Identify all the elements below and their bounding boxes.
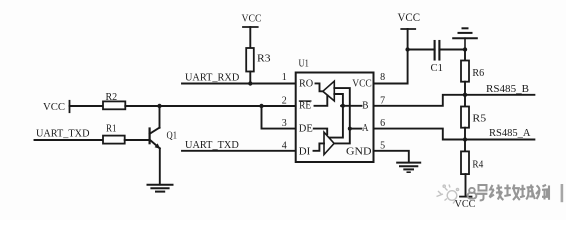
wire B to R5 (464, 95, 466, 107)
hanzi 城 (520, 185, 535, 200)
watermark right bar (561, 184, 564, 202)
svg-text:5: 5 (380, 140, 385, 151)
svg-text:4: 4 (282, 140, 287, 151)
wire R2 to pin2 of U1 (125, 105, 295, 107)
wire A to R4 (464, 140, 466, 152)
power flag VCC top (R3) (243, 26, 258, 28)
op-amp U1 box (296, 73, 374, 163)
node C1-gnd junction (463, 47, 467, 51)
resistor R4 (461, 151, 469, 174)
wire VCC flag to R3 (249, 27, 251, 48)
node VCC-C1 junction (405, 47, 409, 51)
receiver triangle (323, 81, 335, 101)
power flag VCC (pin8) (401, 28, 415, 30)
wire A internal (350, 128, 362, 130)
wire R1 to Q1 base (125, 139, 149, 141)
transistor Q1 (150, 128, 161, 149)
wire UART_TXD to R1 (35, 139, 104, 141)
node RE-DE junction (259, 104, 263, 108)
hanzi 线 (490, 185, 504, 201)
wire receiver lower input (329, 94, 343, 138)
resistor R2 (103, 101, 125, 109)
wire VCC to R2 (70, 105, 104, 107)
svg-text:RO: RO (299, 78, 313, 89)
driver triangle (324, 132, 334, 154)
svg-text:VCC: VCC (455, 199, 476, 210)
svg-text:C1: C1 (431, 63, 443, 74)
svg-text:VCC: VCC (398, 10, 421, 24)
wire R6 to B line (464, 82, 466, 95)
ground (inverted, top right) (453, 28, 477, 49)
svg-text:RS485_B: RS485_B (486, 83, 529, 95)
svg-text:RE: RE (299, 101, 311, 112)
svg-text:R6: R6 (472, 68, 484, 79)
wire RE enable (315, 96, 328, 106)
wire pin5 to ground (374, 151, 409, 163)
wire junction down to DE pin3 (262, 106, 296, 129)
node R5-A junction (463, 137, 467, 141)
svg-text:2: 2 (282, 95, 287, 106)
wire R3 to pin1 wire (249, 72, 251, 84)
node collector junction (157, 104, 161, 108)
svg-text:GND: GND (346, 146, 372, 157)
wire UART_RXD to pin1 (182, 83, 296, 85)
svg-text:UART_RXD: UART_RXD (185, 72, 239, 84)
resistor R1 (103, 136, 125, 144)
wire DE enable (314, 129, 327, 134)
hanzi 号 (477, 185, 488, 200)
node R6-B junction (463, 93, 467, 97)
wire R5 to A line (464, 128, 466, 140)
svg-text:DE: DE (299, 123, 313, 134)
svg-text:DI: DI (299, 146, 311, 157)
wire R4 to VCC bottom (465, 174, 467, 197)
wire pin8 to VCC (374, 29, 408, 84)
svg-text:U1: U1 (299, 59, 309, 70)
resistor R3 (246, 48, 254, 72)
wire junction to R6 (464, 50, 466, 61)
hanzi 狮 (536, 185, 549, 200)
power flag VCC left (69, 101, 71, 112)
wire pin6 to RS485_A (374, 129, 535, 140)
power flag VCC bottom (460, 196, 472, 198)
node R3 junction (248, 81, 252, 85)
svg-text:R4: R4 (472, 159, 484, 170)
svg-text:B: B (362, 101, 369, 112)
ground pin5 (397, 163, 420, 173)
8 (468, 188, 477, 199)
wire DI to driver (314, 143, 325, 150)
pin numbers (282, 72, 385, 151)
svg-text:VCC: VCC (242, 12, 262, 24)
pin name labels U1 (299, 78, 372, 157)
node A internal (348, 127, 352, 131)
capacitor C1 (435, 41, 440, 60)
watermark logo star (437, 185, 459, 204)
wire receiver upper input (334, 88, 350, 143)
svg-text:1: 1 (282, 72, 287, 83)
svg-text:UART_TXD: UART_TXD (185, 139, 239, 151)
svg-text:3: 3 (282, 118, 287, 129)
hanzi 攻 (504, 185, 520, 201)
wire emitter down to ground (159, 148, 161, 184)
wire collector up to junction (159, 106, 161, 128)
svg-text:6: 6 (380, 118, 385, 129)
svg-text:A: A (362, 123, 369, 134)
wire pin7 to RS485_B (374, 95, 535, 106)
watermark text 8号线攻城狮 (468, 185, 550, 201)
svg-text:8: 8 (380, 72, 385, 83)
svg-text:VCC: VCC (352, 78, 372, 89)
wire RO to receiver tip (316, 83, 323, 91)
wire B internal (341, 105, 362, 107)
svg-text:RS485_A: RS485_A (489, 127, 531, 139)
ground Q1 emitter (148, 185, 173, 192)
resistor R6 (461, 61, 469, 82)
resistor R5 (461, 107, 469, 128)
svg-text:UART_TXD: UART_TXD (36, 127, 90, 139)
svg-text:7: 7 (380, 95, 385, 106)
svg-text:R2: R2 (106, 92, 118, 103)
wire C1 to gnd junction (439, 49, 465, 51)
svg-text:R3: R3 (257, 53, 271, 64)
wire junction to C1 (408, 49, 435, 51)
svg-text:R5: R5 (472, 113, 486, 124)
svg-text:Q1: Q1 (167, 131, 178, 142)
wire UART_TXD to pin4 (182, 150, 296, 152)
node B internal (341, 104, 345, 108)
svg-text:VCC: VCC (43, 101, 65, 113)
svg-text:R1: R1 (106, 124, 117, 135)
